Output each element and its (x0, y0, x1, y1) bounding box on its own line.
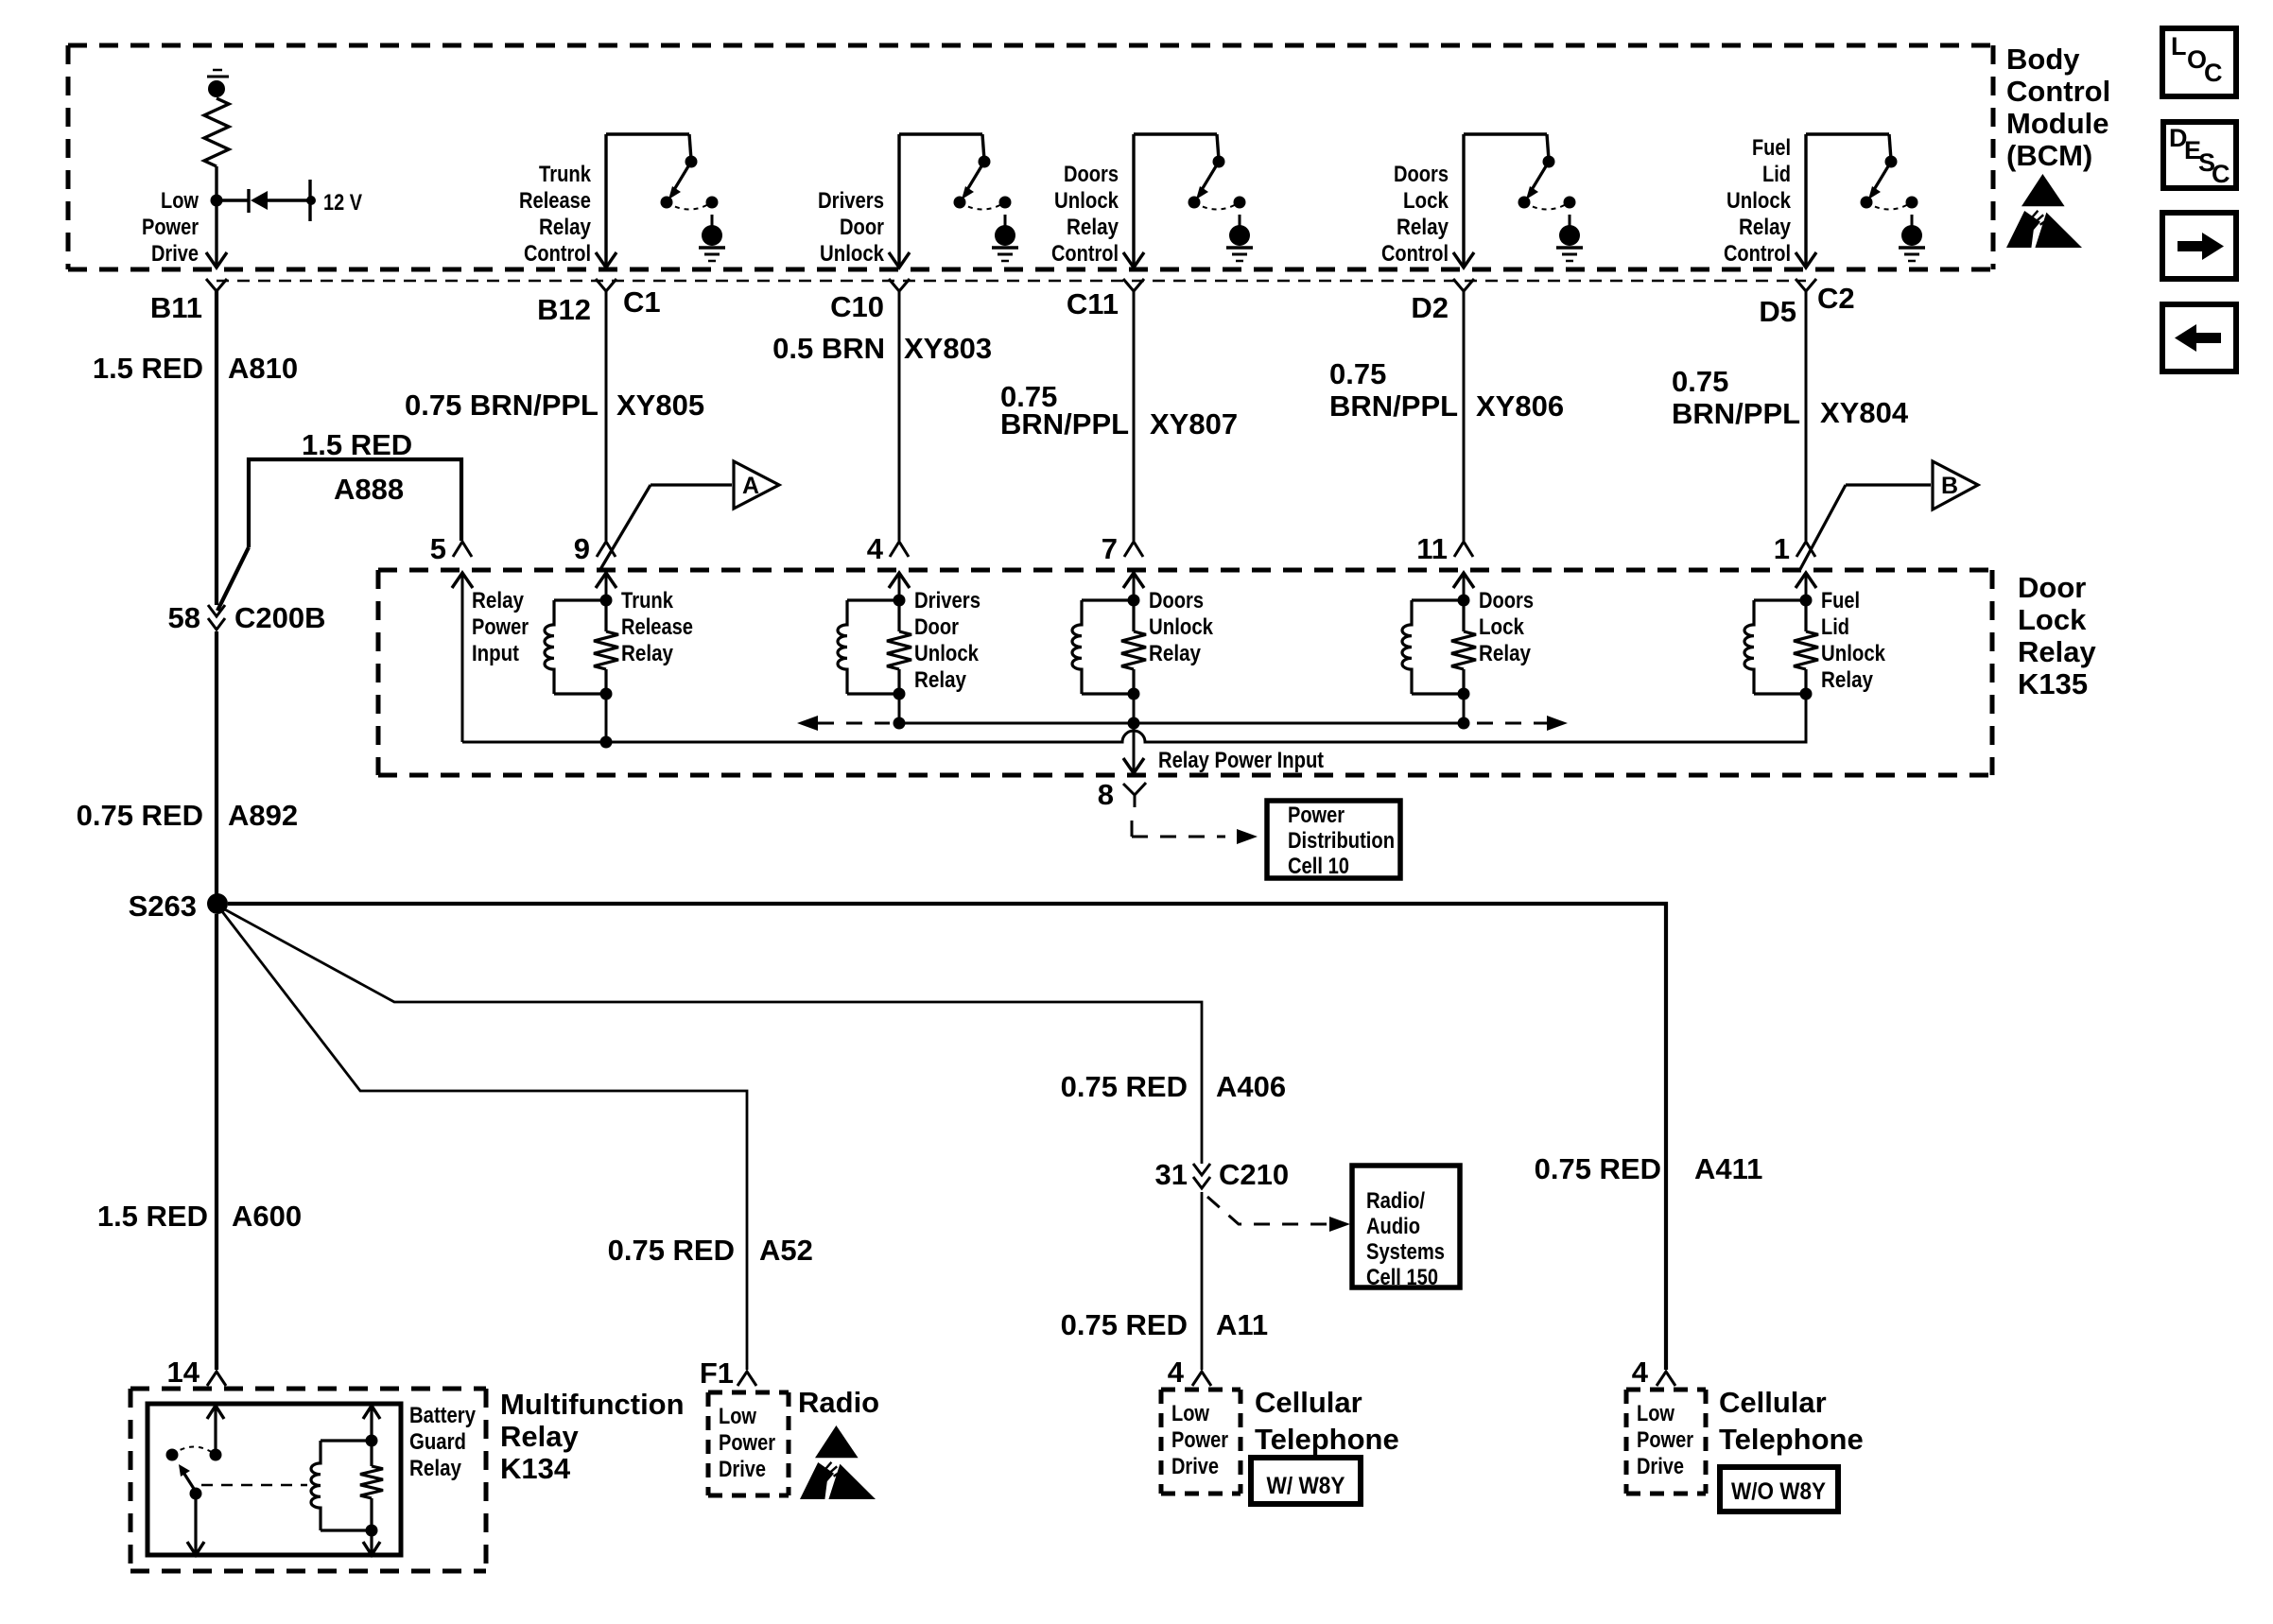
label: 0.75 RED / A11 (1061, 1308, 1269, 1341)
wire: low power drive output to pin B11 (with arrow) (206, 205, 227, 268)
node: pull-up resistor top ball (208, 80, 225, 97)
svg-text:Relay: Relay (1067, 215, 1119, 240)
switch: battery guard relay contacts (K134) (166, 1406, 225, 1555)
node: Doors Lock Relay bottom junction (1458, 688, 1470, 700)
connector pin 4 (cellular telephone w/ W8Y) (1168, 1356, 1211, 1389)
svg-text:4: 4 (1632, 1356, 1649, 1389)
power node: 12 V (306, 180, 362, 221)
resistor: Trunk Release Relay coil suppression (594, 600, 618, 694)
switch: trunk release relay control driver (inside BCM) (596, 134, 719, 268)
relay K135: Door Lock Relay dashed outline (378, 570, 1992, 775)
relay K134: Multifunction Relay dashed outline (130, 1389, 486, 1571)
connector boundary (thin dashed line below BCM) (217, 280, 1806, 282)
ground: trunk release relay control switch (699, 215, 725, 261)
svg-text:14: 14 (167, 1356, 200, 1389)
svg-text:Cellular: Cellular (1719, 1386, 1827, 1419)
dashed reference wire to power distribution (1132, 821, 1258, 844)
relay coil: Fuel Lid Unlock Relay (1744, 600, 1806, 694)
label: 1.5 RED / A600 (97, 1200, 302, 1233)
svg-text:A52: A52 (759, 1234, 813, 1267)
svg-text:D2: D2 (1411, 291, 1449, 324)
label: Low Power Drive (radio) (719, 1404, 775, 1482)
box: Power Distribution Cell 10 (1267, 801, 1400, 878)
wire A892 (0.75 RED) (215, 631, 218, 898)
svg-text:S263: S263 (129, 890, 197, 923)
svg-text:Low: Low (161, 188, 199, 214)
ESD sensitive device symbol (BCM) (2006, 174, 2082, 248)
label: drivers door unlock (818, 188, 885, 267)
svg-text:Drive: Drive (719, 1457, 766, 1482)
svg-text:W/ W8Y: W/ W8Y (1267, 1473, 1345, 1499)
wire A600 (1.5 RED) to multifunction relay (215, 914, 218, 1370)
module: Radio low power drive dashed box (708, 1392, 789, 1495)
resistor: battery guard relay suppression (K134) (360, 1406, 383, 1555)
svg-text:A810: A810 (228, 352, 298, 385)
svg-text:Relay: Relay (539, 215, 592, 240)
svg-text:A600: A600 (232, 1200, 302, 1233)
svg-text:Drivers: Drivers (818, 188, 884, 214)
wire XY807 (0.75 BRN/PPL) (1133, 291, 1136, 541)
connector pin 4 (cellular telephone w/o W8Y) (1632, 1356, 1675, 1389)
wire A52 (0.75 RED) to radio (221, 910, 747, 1370)
svg-text:Lock: Lock (1403, 188, 1449, 214)
svg-text:Trunk: Trunk (539, 162, 592, 187)
svg-text:Relay: Relay (914, 667, 967, 693)
svg-text:D5: D5 (1759, 295, 1796, 328)
svg-text:0.75: 0.75 (1329, 357, 1386, 390)
wire: pin riser into Fuel Lid Unlock Relay (1796, 573, 1816, 600)
module: Body Control Module (BCM) dashed outline (68, 45, 1993, 269)
label: doors lock relay control (1381, 162, 1449, 267)
legend box: LOC (2162, 28, 2236, 96)
connector pin 4 (K135) (867, 532, 909, 565)
wire A11 (0.75 RED) to cellular telephone (w/ W8Y) (1201, 1192, 1204, 1370)
wire A411 (0.75 RED) to cellular telephone (w/o W8Y) (228, 904, 1666, 1370)
svg-text:4: 4 (1168, 1356, 1185, 1389)
svg-text:9: 9 (574, 532, 590, 565)
svg-text:Fuel: Fuel (1752, 135, 1791, 161)
wire: unlock output bus (drivers/doors/lock relays) (894, 694, 1470, 730)
svg-text:XY805: XY805 (616, 389, 704, 422)
svg-text:31: 31 (1155, 1158, 1188, 1191)
svg-text:1.5 RED: 1.5 RED (97, 1200, 208, 1233)
dashed continuation arrow (left, unlock bus) (797, 716, 890, 731)
wire: doors unlock relay to relay power input pin 8 (1123, 694, 1144, 773)
svg-text:Audio: Audio (1366, 1214, 1420, 1239)
svg-text:1: 1 (1774, 532, 1790, 565)
wire A406 (0.75 RED) to C210 (221, 907, 1202, 1164)
svg-text:Power: Power (1171, 1427, 1228, 1453)
legend box: back arrow (2162, 304, 2236, 371)
svg-text:Power: Power (719, 1430, 775, 1456)
svg-text:Radio: Radio (798, 1386, 879, 1419)
svg-text:Power: Power (1637, 1427, 1693, 1453)
node: Drivers Door Unlock Relay bottom junction (894, 688, 906, 700)
label: 0.75 BRN/PPL / XY804 (1672, 365, 1909, 430)
svg-text:Door: Door (914, 614, 959, 640)
wire: pull-up resistor to diode junction (215, 166, 217, 200)
svg-text:Relay: Relay (1739, 215, 1792, 240)
label: Doors Unlock Relay (1149, 588, 1214, 666)
svg-text:B: B (1941, 473, 1958, 499)
svg-text:Drivers: Drivers (914, 588, 980, 613)
svg-text:8: 8 (1098, 778, 1114, 811)
svg-text:K135: K135 (2018, 667, 2088, 700)
svg-text:C210: C210 (1219, 1158, 1289, 1191)
svg-text:Doors: Doors (1479, 588, 1534, 613)
svg-text:0.75 RED: 0.75 RED (1535, 1152, 1661, 1185)
wire: pin riser into Doors Lock Relay (1453, 573, 1474, 600)
connector pins D5 / C2 (1759, 279, 1854, 328)
svg-text:A11: A11 (1216, 1308, 1268, 1341)
box: W/ W8Y (1251, 1458, 1361, 1504)
svg-text:4: 4 (867, 532, 884, 565)
wire XY804 (0.75 BRN/PPL) (1805, 291, 1808, 541)
box: W/O W8Y (1720, 1467, 1838, 1512)
svg-text:BRN/PPL: BRN/PPL (1329, 389, 1458, 423)
node: Fuel Lid Unlock Relay bottom junction (1800, 688, 1813, 700)
svg-text:Control: Control (2006, 75, 2110, 108)
relay coil: Drivers Door Unlock Relay (838, 600, 899, 694)
node: Fuel Lid Unlock Relay top junction (1800, 595, 1813, 607)
svg-text:XY804: XY804 (1820, 396, 1909, 429)
svg-text:Relay: Relay (409, 1456, 462, 1481)
wire: pin riser into Trunk Release Relay (596, 573, 616, 600)
svg-text:XY803: XY803 (904, 332, 992, 365)
svg-text:A406: A406 (1216, 1070, 1286, 1103)
svg-text:Radio/: Radio/ (1366, 1188, 1425, 1214)
box: Radio/Audio Systems Cell 150 (1352, 1166, 1460, 1287)
svg-text:Low: Low (719, 1404, 756, 1429)
resistor: Doors Lock Relay coil suppression (1451, 600, 1476, 694)
svg-text:Release: Release (519, 188, 591, 214)
svg-text:B12: B12 (537, 293, 591, 326)
ground: doors lock relay control switch (1556, 215, 1583, 261)
relay K134 inner case (147, 1404, 401, 1555)
svg-text:C: C (2204, 59, 2223, 87)
connector C200B pin 58 (in-line) (168, 601, 326, 634)
ground: fuel lid unlock relay control switch (1899, 215, 1925, 261)
svg-text:Low: Low (1637, 1401, 1674, 1426)
svg-text:Unlock: Unlock (914, 641, 980, 666)
svg-text:Cell 10: Cell 10 (1288, 854, 1349, 879)
label: Power Distribution Cell 10 (1288, 803, 1395, 879)
splice S263 (129, 890, 228, 923)
label: 0.75 RED / A411 (1535, 1152, 1763, 1185)
dashed reference wire to radio/audio systems (1207, 1197, 1350, 1232)
label: Low Power Drive (cellular w/ W8Y) (1171, 1401, 1228, 1479)
svg-text:Relay: Relay (1149, 641, 1202, 666)
wire: relay power input pin 5 riser (452, 573, 473, 742)
svg-text:Relay: Relay (472, 588, 525, 613)
svg-text:Multifunction: Multifunction (500, 1388, 685, 1421)
svg-text:B11: B11 (150, 291, 202, 324)
svg-text:Release: Release (621, 614, 693, 640)
resistor: Drivers Door Unlock Relay coil suppression (887, 600, 911, 694)
svg-text:Lock: Lock (1479, 614, 1525, 640)
wire A888 (1.5 RED) (217, 459, 461, 611)
legend box: DESC (2163, 122, 2236, 188)
label: Door Lock Relay K135 (2018, 571, 2096, 700)
svg-text:Module: Module (2006, 107, 2109, 140)
svg-text:Lid: Lid (1762, 162, 1791, 187)
node: Doors Unlock Relay bottom junction (1128, 688, 1140, 700)
label: Low Power Drive (cellular w/o W8Y) (1637, 1401, 1693, 1479)
svg-text:Drive: Drive (1171, 1454, 1219, 1479)
connector pin 1 (K135) (1774, 532, 1815, 565)
wire: pin riser into Doors Unlock Relay (1123, 573, 1144, 600)
wire: relay power bus (bottom of K135) (462, 694, 1806, 749)
label: Relay Power Input (pin 8) (1158, 748, 1324, 773)
connector pin D2 (1411, 279, 1474, 324)
node: Doors Unlock Relay top junction (1128, 595, 1140, 607)
connector pin F1 (radio) (700, 1356, 756, 1390)
legend box: forward arrow (2162, 213, 2236, 279)
svg-text:A888: A888 (334, 473, 404, 506)
svg-text:Telephone: Telephone (1255, 1423, 1399, 1456)
svg-text:F1: F1 (700, 1356, 734, 1390)
svg-text:Relay: Relay (621, 641, 674, 666)
relay coil: Doors Unlock Relay (1072, 600, 1134, 694)
svg-text:Relay: Relay (1821, 667, 1874, 693)
svg-text:A: A (742, 473, 759, 499)
relay coil: Trunk Release Relay (545, 600, 606, 694)
connector pin 9 (K135) (574, 532, 616, 565)
module: cellular telephone (w/ W8Y) low power drive dashed box (1161, 1390, 1241, 1494)
switch: fuel lid unlock relay control driver (inside BCM) (1796, 134, 1918, 268)
svg-text:Lid: Lid (1821, 614, 1849, 640)
label: Drivers Door Unlock Relay (914, 588, 980, 693)
wire XY805 (0.75 BRN/PPL) (605, 291, 608, 541)
svg-text:Doors: Doors (1064, 162, 1119, 187)
ESD sensitive device symbol (radio) (800, 1425, 876, 1499)
svg-text:Body: Body (2006, 43, 2080, 76)
svg-text:Door: Door (840, 215, 884, 240)
node: Drivers Door Unlock Relay top junction (894, 595, 906, 607)
label: 0.75 BRN/PPL / XY805 (405, 389, 704, 422)
svg-text:Input: Input (472, 641, 519, 666)
label: Battery Guard Relay (409, 1403, 477, 1481)
svg-text:(BCM): (BCM) (2006, 139, 2092, 172)
node: K134 coil top junction (366, 1435, 378, 1447)
svg-text:Relay: Relay (2018, 635, 2096, 668)
switch: drivers door unlock driver (inside BCM) (889, 134, 1012, 268)
relay coil: battery guard relay (K134) (311, 1441, 372, 1530)
svg-text:7: 7 (1102, 532, 1118, 565)
svg-text:Power: Power (472, 614, 529, 640)
svg-text:Telephone: Telephone (1719, 1423, 1864, 1456)
connector pin B11 (150, 279, 227, 324)
svg-text:58: 58 (168, 601, 200, 634)
svg-text:C11: C11 (1067, 287, 1119, 320)
label: Cellular Telephone (w/o W8Y) (1719, 1386, 1864, 1456)
svg-text:C10: C10 (830, 290, 884, 323)
svg-text:BRN/PPL: BRN/PPL (1000, 407, 1129, 441)
svg-text:XY806: XY806 (1476, 389, 1564, 423)
ground: drivers door unlock switch (992, 215, 1018, 261)
svg-text:0.75: 0.75 (1672, 365, 1728, 398)
svg-text:C1: C1 (623, 285, 661, 319)
svg-text:Unlock: Unlock (820, 241, 885, 267)
svg-text:Relay: Relay (1397, 215, 1449, 240)
label: Low Power Drive (BCM pin B11 driver) (142, 188, 199, 267)
svg-text:Control: Control (1724, 241, 1791, 267)
connector pins B12 / C1 (537, 279, 661, 326)
svg-text:BRN/PPL: BRN/PPL (1672, 397, 1800, 430)
svg-text:A411: A411 (1694, 1152, 1762, 1185)
wire A810 (1.5 RED) (215, 291, 218, 605)
svg-text:Drive: Drive (1637, 1454, 1684, 1479)
label: 0.75 BRN/PPL / XY806 (1329, 357, 1564, 423)
svg-text:Door: Door (2018, 571, 2086, 604)
dashed continuation arrow (right, lock bus) (1477, 716, 1568, 731)
svg-text:Fuel: Fuel (1821, 588, 1860, 613)
label: Body Control Module (BCM) (2006, 43, 2110, 172)
label: fuel lid unlock relay control (1724, 135, 1792, 267)
svg-text:0.75 RED: 0.75 RED (77, 799, 203, 832)
relay coil: Doors Lock Relay (1402, 600, 1464, 694)
svg-text:0.75 RED: 0.75 RED (1061, 1070, 1188, 1103)
svg-text:12 V: 12 V (323, 190, 362, 216)
module: cellular telephone (w/o W8Y) low power drive dashed box (1626, 1390, 1706, 1494)
svg-text:C200B: C200B (234, 601, 326, 634)
switch: doors lock relay control driver (inside BCM) (1453, 134, 1576, 268)
connector pin 5 (K135) (430, 532, 472, 565)
label: W/O W8Y (1731, 1478, 1826, 1505)
svg-text:0.75 BRN/PPL: 0.75 BRN/PPL (405, 389, 599, 422)
node: Doors Lock Relay top junction (1458, 595, 1470, 607)
svg-text:1.5 RED: 1.5 RED (302, 428, 412, 461)
connector pin 8 (K135 bottom) (1098, 778, 1146, 811)
svg-text:A892: A892 (228, 799, 298, 832)
label: trunk release relay control (519, 162, 592, 267)
label: Cellular Telephone (w/ W8Y) (1255, 1386, 1399, 1456)
svg-text:Guard: Guard (409, 1429, 466, 1455)
label: 0.75 BRN/PPL / XY807 (1000, 380, 1238, 441)
label: 0.75 RED / A406 (1061, 1070, 1287, 1103)
node: Trunk Release Relay bottom junction (600, 688, 613, 700)
resistor: BCM low power drive pull-up (204, 98, 229, 166)
svg-text:Drive: Drive (151, 241, 199, 267)
svg-text:0.75 RED: 0.75 RED (608, 1234, 735, 1267)
svg-text:Power: Power (1288, 803, 1345, 828)
svg-text:Distribution: Distribution (1288, 828, 1395, 854)
svg-text:Unlock: Unlock (1149, 614, 1214, 640)
wire: pin riser into Drivers Door Unlock Relay (889, 573, 910, 600)
svg-text:Unlock: Unlock (1821, 641, 1886, 666)
svg-text:Trunk: Trunk (621, 588, 674, 613)
svg-text:Unlock: Unlock (1726, 188, 1792, 214)
power feed symbol above pull-up resistor (207, 70, 229, 77)
svg-text:Control: Control (1381, 241, 1449, 267)
triangle connector B (to fuel lid circuit) (1799, 461, 1978, 571)
wire XY803 (0.5 BRN) (898, 291, 901, 541)
connector C210 pin 31 (in-line) (1155, 1158, 1290, 1191)
svg-text:Doors: Doors (1394, 162, 1449, 187)
connector pin 14 (K134) (167, 1356, 226, 1389)
svg-text:L: L (2171, 32, 2187, 60)
svg-text:Control: Control (1051, 241, 1119, 267)
connector pin 7 (K135) (1102, 532, 1143, 565)
svg-text:Low: Low (1171, 1401, 1209, 1426)
svg-text:Lock: Lock (2018, 603, 2087, 636)
label: doors unlock relay control (1051, 162, 1119, 267)
svg-text:Doors: Doors (1149, 588, 1204, 613)
switch: doors unlock relay control driver (inside BCM) (1123, 134, 1246, 268)
svg-text:Cell 150: Cell 150 (1366, 1265, 1438, 1290)
node: Trunk Release Relay top junction (600, 595, 613, 607)
svg-text:Control: Control (524, 241, 591, 267)
node: diode junction on low power drive (211, 195, 223, 207)
label: 1.5 RED / A888 (302, 428, 412, 506)
label: W/ W8Y (1267, 1473, 1345, 1499)
svg-text:XY807: XY807 (1150, 407, 1238, 441)
label: Trunk Release Relay (621, 588, 693, 666)
svg-text:5: 5 (430, 532, 446, 565)
ground: doors unlock relay control switch (1226, 215, 1253, 261)
svg-text:Power: Power (142, 215, 199, 240)
svg-text:0.75 RED: 0.75 RED (1061, 1308, 1188, 1341)
label: 0.5 BRN / XY803 (772, 332, 992, 365)
triangle connector A (to trunk release circuit) (599, 461, 779, 571)
label: Multifunction Relay K134 (500, 1388, 685, 1485)
resistor: Doors Unlock Relay coil suppression (1121, 600, 1146, 694)
mechanical link: K134 switch to coil (dashed) (201, 1484, 307, 1487)
svg-text:C: C (2212, 160, 2230, 188)
label: 1.5 RED / A810 (93, 352, 298, 385)
svg-text:K134: K134 (500, 1452, 571, 1485)
svg-text:Relay: Relay (1479, 641, 1532, 666)
svg-text:Unlock: Unlock (1054, 188, 1119, 214)
node: K134 coil bottom junction (366, 1525, 378, 1537)
svg-text:11: 11 (1416, 532, 1448, 565)
connector pin C10 (830, 279, 910, 323)
label: 0.75 RED / A52 (608, 1234, 813, 1267)
connector pin C11 (1067, 279, 1144, 320)
svg-text:Cellular: Cellular (1255, 1386, 1362, 1419)
svg-text:Systems: Systems (1366, 1239, 1445, 1265)
label: Doors Lock Relay (1479, 588, 1534, 666)
label: Radio/Audio Systems Cell 150 (1366, 1188, 1445, 1290)
svg-text:C2: C2 (1817, 282, 1855, 315)
label: Radio (798, 1386, 879, 1419)
svg-text:Battery: Battery (409, 1403, 477, 1428)
connector pin 11 (K135) (1416, 532, 1473, 565)
label: 0.75 RED / A892 (77, 799, 299, 832)
svg-text:Relay Power Input: Relay Power Input (1158, 748, 1324, 773)
svg-text:Relay: Relay (500, 1420, 579, 1453)
label: Fuel Lid Unlock Relay (1821, 588, 1886, 693)
diode: BCM clamp diode to 12 V (221, 189, 308, 213)
resistor: Fuel Lid Unlock Relay coil suppression (1794, 600, 1818, 694)
svg-text:W/O W8Y: W/O W8Y (1731, 1478, 1826, 1505)
svg-text:1.5 RED: 1.5 RED (93, 352, 203, 385)
svg-text:0.5 BRN: 0.5 BRN (772, 332, 885, 365)
wire XY806 (0.75 BRN/PPL) (1463, 291, 1466, 541)
label: Relay Power Input (pin 5) (472, 588, 529, 666)
